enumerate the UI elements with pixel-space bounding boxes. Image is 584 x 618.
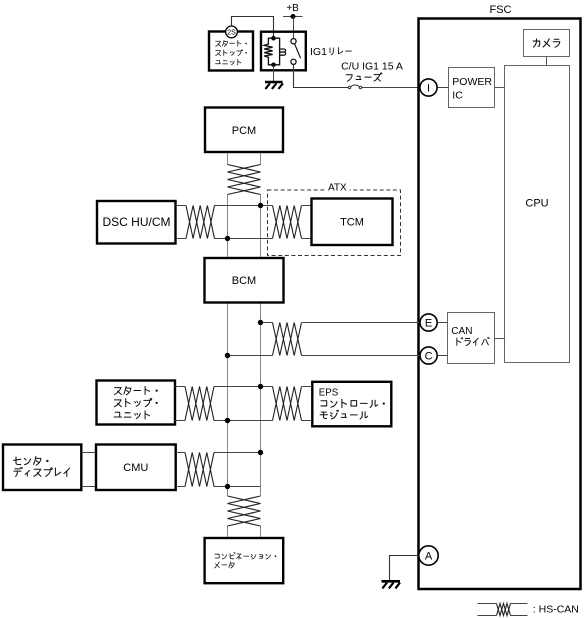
camera box <box>524 30 570 57</box>
legend twisted-pair symbol <box>478 604 528 616</box>
wire: coil bottom to ground <box>273 66 275 81</box>
label start-stop unit lower <box>114 386 157 394</box>
svg-text:IC: IC <box>452 89 463 101</box>
relay contact lower <box>291 59 296 64</box>
relay switch blade <box>295 44 301 59</box>
wire: twist to connector C <box>302 355 420 357</box>
label center display <box>14 457 49 466</box>
wire: twist to connector E <box>302 322 420 324</box>
ground (FSC) <box>382 581 401 588</box>
label fuse kana <box>346 73 382 81</box>
svg-text:C: C <box>425 350 433 362</box>
twisted pair: bus to EPS <box>273 387 302 421</box>
wire: bus to E twist <box>261 322 273 324</box>
wire: twist to EPS lower <box>302 420 313 422</box>
svg-text:A: A <box>425 551 433 563</box>
wire: connector I to POWER IC <box>438 87 449 89</box>
svg-text:: HS-CAN: : HS-CAN <box>533 604 579 616</box>
svg-text:ATX: ATX <box>328 182 347 193</box>
wire: connector C to CAN driver <box>438 355 448 357</box>
node dot: coil bottom <box>271 63 276 68</box>
wire: CMU upper to bus <box>176 452 185 454</box>
wire: DSC upper to bus <box>176 205 187 207</box>
label IG1 relay kana <box>330 48 351 55</box>
svg-text:2S: 2S <box>227 29 236 36</box>
wire: fuse to connector I <box>362 87 420 89</box>
CPU box <box>505 66 570 363</box>
box EPS control module <box>312 382 391 427</box>
junction dot: bus upper at CMU level <box>258 450 263 455</box>
svg-text:BCM: BCM <box>232 275 256 287</box>
wire: CAN driver to CPU <box>495 338 505 340</box>
svg-text:C/U IG1 15 A: C/U IG1 15 A <box>341 60 403 72</box>
wire: camera to CPU <box>546 57 548 66</box>
box: combination meter <box>205 538 284 583</box>
svg-text:FSC: FSC <box>490 4 512 16</box>
box CMU <box>96 445 176 491</box>
label: start-stop unit text <box>216 40 247 46</box>
connector circle C <box>420 347 437 364</box>
junction dot: bus lower at DSC level <box>225 236 230 241</box>
label combination meter <box>215 553 276 560</box>
twisted pair: bus to FSC connectors <box>273 323 302 356</box>
ATX label whiteout <box>325 184 350 192</box>
junction dot: bus lower at CMU level <box>225 484 230 489</box>
wire: DSC lower to bus <box>176 238 187 240</box>
power +B tap bar <box>283 16 303 18</box>
ground (relay coil) <box>265 82 283 89</box>
bus rail CAN-1 (left) <box>227 152 229 538</box>
twisted pair: start-stop to bus <box>185 387 214 421</box>
junction dot: bus lower at EPS level <box>225 418 230 423</box>
junction dot: bus upper at E level <box>258 320 263 325</box>
connector circle E <box>420 314 437 331</box>
relay IG1 box <box>261 32 306 71</box>
twisted pair: DSC to bus <box>186 206 215 239</box>
wire: start-stop upper to bus <box>175 386 185 388</box>
svg-text:POWER: POWER <box>452 76 492 88</box>
wire: POWER IC to CPU <box>495 87 505 89</box>
wire: 2S to relay coil <box>232 17 274 37</box>
junction dot +B <box>291 14 296 19</box>
twisted pair: bus to combination meter <box>228 496 261 526</box>
svg-text:CMU: CMU <box>123 462 148 474</box>
node dot: coil top <box>271 36 276 41</box>
connector circle 2S <box>226 26 238 38</box>
box: start-stop unit (top) <box>209 32 253 71</box>
svg-text:TCM: TCM <box>340 217 364 229</box>
wire: twist to TCM lower <box>302 238 312 240</box>
wire: CMU lower to bus <box>176 486 185 488</box>
svg-text:CPU: CPU <box>525 197 548 209</box>
wire: relay switch to fuse <box>294 64 349 87</box>
twisted pair: bus to TCM <box>273 206 302 239</box>
box: start-stop unit (lower) <box>97 381 176 425</box>
svg-text:E: E <box>425 317 432 329</box>
junction dot: bus upper at EPS level <box>258 384 263 389</box>
FSC unit box <box>419 19 581 590</box>
connector circle I <box>420 79 437 96</box>
connector circle A <box>419 546 438 565</box>
svg-text:PCM: PCM <box>232 125 256 137</box>
svg-text:IG1: IG1 <box>310 46 327 58</box>
label camera <box>533 39 560 48</box>
svg-text:I: I <box>427 82 430 94</box>
box: center display <box>3 445 81 491</box>
twisted pair: PCM to bus junction <box>228 165 261 195</box>
POWER IC box <box>449 68 495 108</box>
wire: bus to C twist <box>228 355 273 357</box>
junction dot: bus lower at C level <box>225 353 230 358</box>
bus rail CAN-2 (right) <box>260 152 262 538</box>
twisted pair: CMU to bus <box>185 453 214 487</box>
wire: twist to TCM upper <box>302 205 312 207</box>
box PCM <box>205 108 283 153</box>
svg-text:EPS: EPS <box>319 388 339 399</box>
fuse C/U IG1 15A <box>348 85 362 89</box>
wire: center display to CMU upper <box>81 452 96 454</box>
junction dot: bus upper at TCM level <box>258 203 263 208</box>
box TCM <box>312 199 393 246</box>
wire: center display to CMU lower <box>81 486 96 488</box>
box BCM <box>205 258 284 303</box>
relay contact upper <box>291 39 296 44</box>
relay coil (resistor parallel inductor) <box>264 38 285 65</box>
box DSC HU/CM <box>97 201 176 244</box>
wire: twist to EPS upper <box>302 386 313 388</box>
wire: start-stop lower to bus <box>175 420 185 422</box>
wire: +B to relay switch <box>293 17 295 39</box>
ATX dashed group box <box>268 190 401 256</box>
svg-text:DSC HU/CM: DSC HU/CM <box>103 215 171 229</box>
wire: connector A to ground <box>390 556 420 581</box>
CAN driver box <box>448 313 495 364</box>
wire: connector E to CAN driver <box>438 322 448 324</box>
svg-text:+B: +B <box>286 3 299 14</box>
svg-text:CAN: CAN <box>451 326 472 337</box>
